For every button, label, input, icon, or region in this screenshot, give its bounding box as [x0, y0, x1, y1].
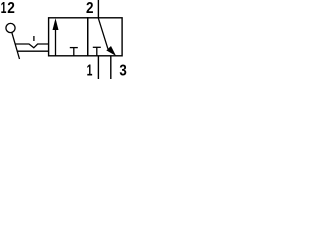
exhaust flow arrow 2-3 (right box): [98, 18, 116, 56]
fork top line with V notch: [15, 44, 49, 48]
port 2 line: [97, 0, 99, 18]
valve body left box: [49, 18, 88, 56]
flow arrow 1-2 (left box): [53, 18, 59, 56]
port 3 line: [110, 56, 112, 79]
blocked port T (right box): [93, 47, 101, 56]
svg-text:3: 3: [119, 62, 126, 79]
port 1 line: [97, 56, 99, 79]
plunger tick: [33, 36, 35, 41]
svg-text:2: 2: [7, 0, 15, 17]
svg-text:2: 2: [86, 0, 94, 17]
svg-text:1: 1: [87, 62, 93, 79]
svg-text:1: 1: [1, 0, 7, 17]
fork bottom line: [17, 50, 49, 52]
roller circle: [6, 23, 15, 32]
valve body right box: [88, 18, 122, 56]
label 12 (signal): [1, 0, 15, 17]
blocked port T (left box): [70, 48, 78, 56]
lever: [12, 32, 20, 59]
